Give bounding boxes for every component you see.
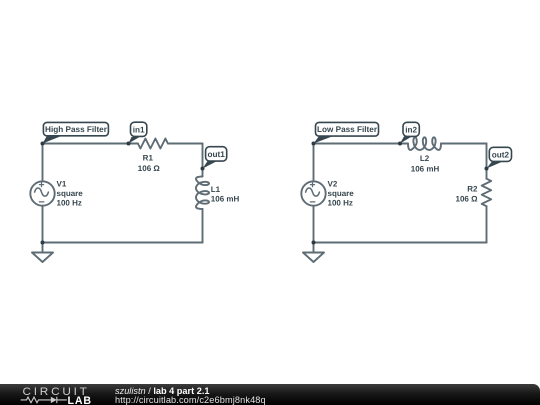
svg-text:L2: L2 bbox=[420, 154, 430, 163]
svg-text:106 Ω: 106 Ω bbox=[456, 195, 479, 204]
svg-text:V1: V1 bbox=[57, 179, 67, 188]
svg-text:V2: V2 bbox=[328, 179, 338, 188]
svg-text:R1: R1 bbox=[143, 153, 154, 162]
svg-text:100 Hz: 100 Hz bbox=[328, 199, 353, 208]
svg-text:R2: R2 bbox=[467, 185, 478, 194]
svg-text:High Pass Filter: High Pass Filter bbox=[45, 125, 108, 134]
svg-text:square: square bbox=[57, 189, 84, 198]
svg-text:106 mH: 106 mH bbox=[411, 165, 440, 174]
svg-text:106 Ω: 106 Ω bbox=[138, 164, 161, 173]
svg-text:100 Hz: 100 Hz bbox=[57, 199, 82, 208]
svg-text:out1: out1 bbox=[208, 150, 226, 159]
svg-text:L1: L1 bbox=[211, 185, 221, 194]
svg-text:in2: in2 bbox=[405, 125, 417, 134]
svg-text:in1: in1 bbox=[133, 125, 145, 134]
svg-text:square: square bbox=[328, 189, 355, 198]
svg-text:106 mH: 106 mH bbox=[211, 194, 240, 203]
svg-text:out2: out2 bbox=[492, 151, 510, 160]
svg-text:Low Pass Filter: Low Pass Filter bbox=[317, 125, 378, 134]
